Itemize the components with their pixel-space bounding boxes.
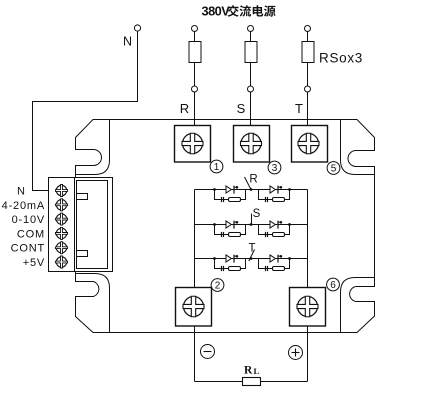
- pin number 3: [268, 161, 281, 174]
- junction dots row S: [213, 223, 216, 226]
- capacitor plates R-a: [221, 197, 223, 202]
- connector J1 housing outer: [75, 178, 113, 272]
- terminal box 1 (screw): [175, 126, 211, 163]
- svg-text:3: 3: [272, 163, 278, 174]
- connector screw terminal 0-10V: [55, 213, 67, 225]
- svg-text:1: 1: [214, 162, 220, 173]
- svg-text:L: L: [254, 366, 260, 376]
- wire right bus (to terminal 6): [307, 190, 309, 288]
- svg-text:5: 5: [331, 164, 337, 175]
- fuse FU-S body: [245, 42, 257, 63]
- connector key tab upper: [77, 194, 88, 200]
- wire FU-S phase into module terminal: [250, 92, 252, 126]
- capacitor plates T-b: [265, 266, 267, 271]
- wire phase row T main line: [195, 258, 308, 260]
- connector screw terminal 4-20mA: [55, 199, 67, 211]
- wire fuse FU-R bottom lead: [194, 63, 196, 87]
- wire DC+ from terminal 6 to load loop: [307, 326, 309, 382]
- SCR S-b cathode bar: [277, 221, 279, 229]
- wire N: down, left, down to connector N screw: [33, 31, 138, 190]
- snubber resistor S-a: [229, 233, 241, 237]
- wire FU-R phase into module terminal: [194, 92, 196, 126]
- module body contour top-right: [341, 120, 375, 175]
- wire DC- from terminal 2 to load loop: [194, 326, 196, 382]
- SCR T-a triangle: [226, 255, 231, 262]
- thyristor cell T-a: snubber branch wire: [215, 259, 246, 269]
- SCR T-b cathode bar: [277, 255, 279, 263]
- capacitor plates R-b: [265, 197, 267, 202]
- node T tick: [249, 250, 255, 262]
- capacitor plates S-a: [221, 232, 223, 237]
- svg-text:N: N: [17, 186, 25, 198]
- SCR T-a cathode bar: [233, 255, 235, 263]
- connector screw terminal COM: [55, 227, 67, 239]
- fuse FU-T top terminal circle: [305, 26, 311, 32]
- svg-text:S: S: [237, 101, 246, 116]
- svg-text:+5V: +5V: [23, 257, 45, 269]
- snubber resistor T-b: [273, 267, 285, 271]
- wire fuse FU-T top lead: [307, 32, 309, 42]
- connector key tab lower: [77, 251, 88, 257]
- thyristor cell S-a: snubber branch wire: [215, 225, 246, 235]
- snubber resistor S-b: [273, 233, 285, 237]
- SCR T-b gate: [278, 255, 281, 257]
- node N terminal circle (top): [134, 25, 140, 31]
- svg-text:R: R: [244, 365, 253, 377]
- SCR T-a gate: [234, 255, 237, 257]
- fuse FU-S top terminal circle: [248, 26, 254, 32]
- junction dots row T: [213, 257, 216, 260]
- svg-text:COM: COM: [17, 228, 45, 240]
- wire phase row S main line: [195, 224, 308, 226]
- svg-text:380V: 380V: [202, 4, 231, 19]
- wire fuse FU-R top lead: [194, 32, 196, 42]
- svg-text:R: R: [180, 101, 189, 116]
- connector J1 terminal strip: [49, 178, 75, 272]
- wire load bottom: [195, 381, 308, 383]
- fuse FU-T body: [302, 42, 314, 63]
- svg-text:6: 6: [330, 280, 336, 291]
- pin number 1: [210, 160, 223, 173]
- fuse FU-R bottom terminal circle: [192, 86, 198, 92]
- wire left bus (to terminal 2): [194, 190, 196, 288]
- svg-text:0-10V: 0-10V: [12, 214, 45, 226]
- capacitor plates T-a: [221, 266, 223, 271]
- SCR R-b triangle: [270, 186, 275, 193]
- svg-text:T: T: [295, 101, 303, 116]
- terminal box 3 (screw): [234, 126, 270, 163]
- wire fuse FU-S bottom lead: [250, 63, 252, 87]
- pin number 5: [327, 162, 340, 175]
- SCR S-b triangle: [270, 221, 275, 228]
- connector screw terminal CONT: [55, 242, 67, 254]
- node S tick: [251, 214, 253, 225]
- terminal box 6 (screw): [290, 288, 326, 327]
- SCR S-a gate: [234, 221, 237, 223]
- connector screw terminal +5V: [55, 256, 67, 268]
- wire phase row R main line: [195, 189, 308, 191]
- SCR R-a cathode bar: [233, 186, 235, 194]
- snubber resistor R-b: [273, 198, 285, 202]
- SCR S-a triangle: [226, 221, 231, 228]
- fuse FU-R top terminal circle: [192, 26, 198, 32]
- svg-text:2: 2: [215, 281, 221, 292]
- svg-text:N: N: [123, 35, 132, 49]
- SCR S-b gate: [278, 221, 281, 223]
- module body contour bottom-left: [76, 274, 110, 333]
- SCR R-a gate: [234, 186, 237, 188]
- thyristor cell S-b: snubber branch wire: [259, 225, 290, 235]
- fuse FU-S bottom terminal circle: [248, 86, 254, 92]
- snubber resistor R-a: [229, 198, 241, 202]
- SCR R-b gate: [278, 186, 281, 188]
- connector J1 housing inner: [77, 181, 108, 269]
- wire fuse FU-S top lead: [250, 32, 252, 42]
- svg-text:R: R: [249, 174, 257, 186]
- thyristor cell R-b: snubber branch wire: [259, 190, 290, 200]
- svg-text:T: T: [248, 243, 255, 255]
- module body contour bottom-right: [341, 278, 375, 333]
- thyristor cell R-a: snubber branch wire: [215, 190, 246, 200]
- wire FU-T phase into module terminal: [307, 92, 309, 126]
- svg-text:RSox3: RSox3: [319, 51, 363, 66]
- fuse FU-T bottom terminal circle: [305, 86, 311, 92]
- terminal box 5 (screw): [292, 126, 328, 163]
- snubber resistor T-a: [229, 267, 241, 271]
- module M1 outline (SSR body with mounting ears): [76, 120, 375, 333]
- terminal box 2 (screw): [176, 288, 212, 327]
- polarity marker plus: [289, 346, 303, 360]
- title 380V AC power supply: [202, 4, 276, 19]
- polarity marker minus: [201, 345, 215, 359]
- junction dots row R: [213, 188, 216, 191]
- thyristor cell T-b: snubber branch wire: [259, 259, 290, 269]
- svg-text:CONT: CONT: [11, 243, 45, 255]
- module body contour top-left: [76, 120, 110, 175]
- connector screw terminal N: [55, 185, 67, 197]
- SCR T-b triangle: [270, 255, 275, 262]
- node R tick: [245, 177, 252, 190]
- SCR R-b cathode bar: [277, 186, 279, 194]
- fuse FU-R body: [189, 42, 201, 63]
- pin number 6: [327, 278, 340, 291]
- svg-text:S: S: [253, 208, 261, 220]
- svg-text:4-20mA: 4-20mA: [2, 200, 45, 212]
- pin number 2: [211, 279, 224, 292]
- resistor RL (load): [243, 378, 261, 386]
- wire fuse FU-T bottom lead: [307, 63, 309, 87]
- SCR R-a triangle: [226, 186, 231, 193]
- SCR S-a cathode bar: [233, 221, 235, 229]
- capacitor plates S-b: [265, 232, 267, 237]
